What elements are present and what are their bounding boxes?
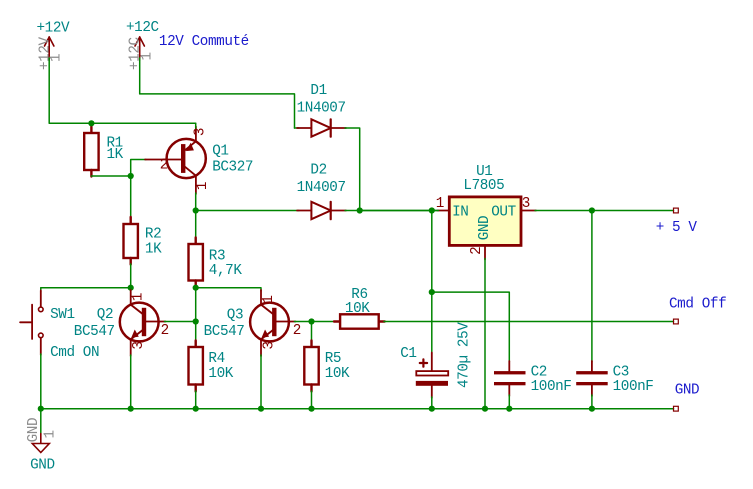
svg-text:GND: GND (30, 458, 55, 474)
svg-text:D2: D2 (310, 162, 326, 178)
junction R1 bottom node (128, 173, 134, 179)
svg-text:BC547: BC547 (74, 324, 115, 340)
svg-text:1: 1 (131, 293, 147, 301)
svg-text:R2: R2 (145, 226, 161, 242)
junction +5V / C3 (589, 207, 595, 213)
wire Q1 base net (131, 160, 146, 177)
transistor Q2 BC547 (130, 288, 132, 291)
svg-text:10K: 10K (345, 301, 370, 317)
wire Q1 emitter to rail (195, 123, 197, 128)
svg-text:1K: 1K (145, 242, 162, 258)
svg-text:10K: 10K (325, 366, 350, 382)
junction C2 bus (506, 406, 512, 412)
power symbol GND (40, 409, 42, 435)
junction Q2 base / R3-R4 net (193, 318, 199, 324)
wire end GND (674, 406, 679, 411)
svg-text:100nF: 100nF (613, 379, 654, 395)
diode D2 (196, 210, 299, 212)
svg-text:BC327: BC327 (212, 160, 253, 176)
svg-text:IN: IN (452, 205, 468, 221)
svg-text:12V Commuté: 12V Commuté (159, 34, 249, 50)
svg-text:+12V: +12V (37, 36, 53, 70)
junction C1 top branch (429, 289, 435, 295)
transistor Q3 BC547 (196, 288, 261, 291)
wire end +5V (674, 208, 679, 213)
junction U1 gnd bus (482, 406, 488, 412)
svg-text:Cmd ON: Cmd ON (50, 345, 99, 361)
svg-text:+12C: +12C (126, 20, 159, 36)
svg-text:2: 2 (161, 323, 169, 339)
diode D1 (295, 127, 300, 129)
junction D1-D2 (357, 207, 363, 213)
junction R3 bottom (193, 285, 199, 291)
junction R1 top (88, 120, 94, 126)
resistor R2 (130, 176, 132, 218)
svg-text:Q1: Q1 (212, 143, 228, 159)
wire +12C to D1 (140, 58, 295, 128)
resistor R5 (311, 322, 313, 342)
svg-text:Cmd Off: Cmd Off (669, 296, 726, 312)
junction Q1-D2-R3 (193, 207, 199, 213)
wire +12V down to rail (49, 58, 196, 123)
junction C3 bus (589, 406, 595, 412)
svg-text:1: 1 (195, 182, 211, 190)
gnd bus wire (41, 408, 674, 410)
svg-text:1: 1 (261, 295, 277, 303)
svg-text:1: 1 (43, 430, 59, 438)
regulator U1 L7805 (449, 197, 521, 246)
svg-text:GND: GND (26, 418, 42, 443)
svg-text:3: 3 (522, 196, 530, 212)
junction Q3 emitter bus (258, 406, 264, 412)
transistor Q1 BC327 (145, 159, 182, 161)
wire U1 out to +5V (535, 210, 674, 212)
wire Q1 collector down (195, 193, 197, 211)
svg-text:C1: C1 (400, 346, 416, 362)
svg-text:1K: 1K (107, 147, 124, 163)
power flag +12V (48, 37, 50, 60)
svg-text:OUT: OUT (491, 205, 516, 221)
svg-text:C3: C3 (613, 364, 629, 380)
svg-text:+12V: +12V (37, 20, 71, 36)
svg-text:BC547: BC547 (204, 324, 245, 340)
capacitor C3 100nF (591, 211, 593, 363)
junction Q3 base / R5 / R6 (308, 318, 314, 324)
resistor R1 (90, 123, 92, 128)
svg-text:Q3: Q3 (227, 308, 243, 324)
wire end Cmd Off (674, 319, 679, 324)
svg-text:C2: C2 (531, 364, 547, 380)
resistor R4 (195, 288, 197, 342)
resistor R6 (312, 321, 337, 323)
svg-text:2: 2 (469, 247, 485, 255)
svg-text:GND: GND (477, 216, 493, 241)
switch SW1 (41, 287, 131, 289)
svg-text:4,7K: 4,7K (209, 263, 243, 279)
resistor R3 (195, 211, 197, 239)
svg-text:1N4007: 1N4007 (297, 180, 346, 196)
svg-text:R4: R4 (208, 351, 224, 367)
svg-text:3: 3 (192, 128, 208, 136)
capacitor C1 470u (431, 211, 433, 354)
svg-text:L7805: L7805 (463, 178, 504, 194)
svg-text:1: 1 (436, 196, 444, 212)
svg-text:10K: 10K (208, 366, 233, 382)
svg-text:1: 1 (49, 54, 65, 62)
svg-text:D1: D1 (310, 83, 326, 99)
svg-text:100nF: 100nF (531, 379, 572, 395)
svg-text:SW1: SW1 (50, 307, 75, 323)
svg-text:1N4007: 1N4007 (297, 100, 346, 116)
wire U1 gnd down (484, 259, 486, 409)
svg-text:1: 1 (140, 52, 156, 60)
junction Q2 emitter bus (128, 406, 134, 412)
junction R5 bus (308, 406, 314, 412)
svg-text:2: 2 (160, 158, 168, 174)
junction U1 in / C1 (429, 207, 435, 213)
junction R4 bus (193, 406, 199, 412)
wire U1 in (360, 210, 439, 212)
svg-text:470µ 25V: 470µ 25V (456, 322, 472, 388)
svg-text:GND: GND (675, 382, 700, 398)
C1 plus sign (420, 362, 427, 364)
svg-text:3: 3 (131, 341, 147, 349)
svg-text:+ 5 V: + 5 V (656, 220, 698, 236)
junction C1 bus (429, 406, 435, 412)
junction SW1 bus (38, 406, 44, 412)
power flag +12C (139, 37, 141, 60)
junction R2 bottom (128, 285, 134, 291)
svg-text:Q2: Q2 (97, 307, 113, 323)
wire R1 bottom to node (91, 175, 130, 177)
svg-text:2: 2 (293, 323, 301, 339)
capacitor C2 100nF (432, 292, 510, 362)
svg-text:3: 3 (261, 341, 277, 349)
svg-text:R5: R5 (325, 351, 341, 367)
